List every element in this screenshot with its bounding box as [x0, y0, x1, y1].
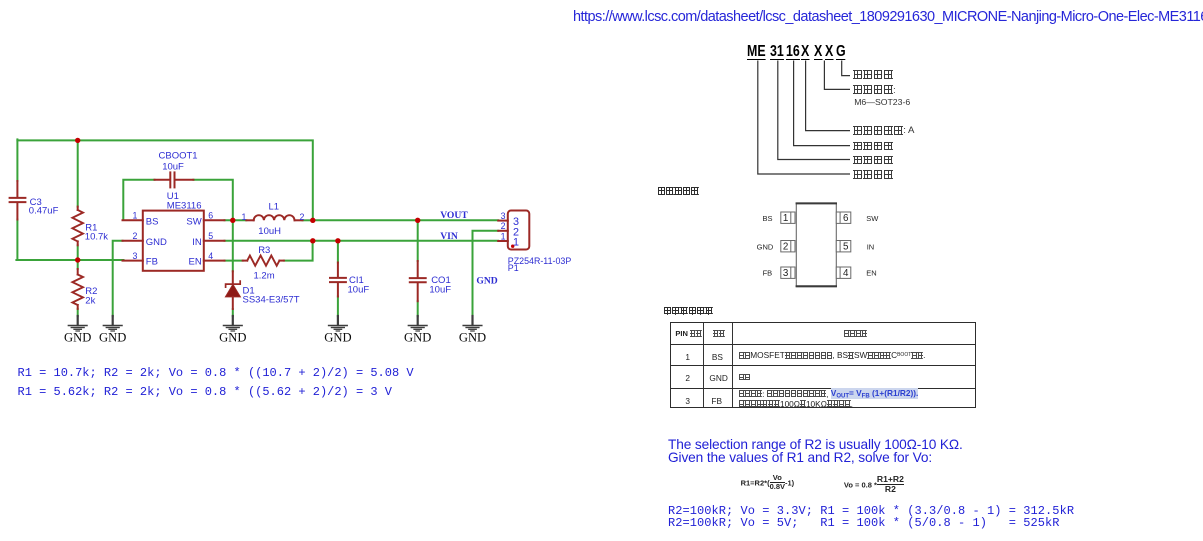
- wire CO1 bottom to ground: [417, 301, 419, 316]
- package SOT23-6 body: [796, 203, 836, 287]
- wire R2 bottom to ground: [77, 309, 79, 316]
- svg-text:FB: FB: [146, 257, 158, 268]
- diode D1 SS34: [232, 271, 234, 284]
- part number product category line: [778, 61, 850, 160]
- P1 pin 1 stub: [498, 240, 508, 242]
- svg-text:10uH: 10uH: [258, 226, 281, 237]
- wire R1 top: [77, 139, 79, 206]
- package pin 2 box left: [781, 241, 795, 252]
- svg-text:3: 3: [783, 268, 789, 279]
- svg-text:IN: IN: [867, 242, 875, 251]
- wire EN to R3: [225, 260, 243, 262]
- datasheet URL: [573, 9, 1203, 25]
- svg-text:10uF: 10uF: [348, 284, 370, 295]
- svg-text:GND: GND: [324, 331, 351, 345]
- pin function table: [670, 322, 976, 408]
- U1 pin 2 GND stub: [123, 240, 143, 242]
- svg-text:10uF: 10uF: [162, 161, 184, 172]
- section title: pin function description: [663, 306, 713, 315]
- ground symbol at x=417.7: [408, 316, 427, 331]
- svg-text:GND: GND: [64, 331, 91, 345]
- monospace calc lines right: [668, 506, 1074, 530]
- svg-text:BS: BS: [146, 216, 159, 227]
- connector P1 body: [508, 211, 530, 250]
- U1 pin 1 BS stub: [123, 219, 143, 221]
- part number version line: [806, 61, 850, 131]
- wire top rail VOUT feedback: [17, 140, 312, 219]
- svg-text:EN: EN: [866, 269, 876, 278]
- part number product variety line: [794, 61, 850, 146]
- svg-text:R3: R3: [258, 245, 270, 256]
- wire D1 anode to ground: [232, 309, 234, 316]
- package pin 5 box right: [836, 241, 851, 252]
- svg-text:6: 6: [208, 211, 213, 221]
- svg-text:BS: BS: [762, 214, 772, 223]
- svg-text:4: 4: [208, 251, 213, 261]
- svg-text:L1: L1: [269, 201, 280, 212]
- wire U1 GND pin to ground: [113, 241, 123, 316]
- svg-text:1: 1: [242, 212, 247, 222]
- svg-text:2: 2: [783, 242, 788, 253]
- inductor L1: [246, 219, 253, 221]
- svg-text:GND: GND: [404, 331, 431, 345]
- ground symbol at x=232.8: [224, 316, 243, 331]
- wire CI1 top: [337, 241, 339, 263]
- svg-text:5: 5: [843, 242, 849, 253]
- package pin 3 box left: [781, 267, 795, 278]
- formula Vo=0.8*(R1+R2)/R2: [844, 476, 904, 495]
- resistor R2: [77, 269, 79, 275]
- svg-text:10uF: 10uF: [429, 284, 451, 295]
- resistor R3: [243, 260, 248, 262]
- ground symbol at x=77.7: [68, 316, 87, 331]
- package pin 6 box right: [836, 212, 851, 223]
- wire CBOOT1 to SW node: [193, 180, 232, 219]
- U1 pin 4 EN stub: [204, 260, 225, 262]
- wire P1 pin2 to ground: [473, 231, 499, 317]
- P1 polarity dot: [511, 245, 514, 248]
- wire BS to CBOOT1: [123, 180, 154, 220]
- ground symbol at x=472.5: [463, 316, 482, 331]
- junction node VIN / R3: [310, 238, 315, 243]
- monospace calc lines left: [18, 364, 414, 402]
- svg-text:2: 2: [501, 221, 506, 231]
- svg-text:GND: GND: [476, 276, 497, 287]
- svg-text:2k: 2k: [85, 296, 95, 307]
- svg-text:4: 4: [843, 268, 849, 279]
- tree labels (Chinese): [853, 70, 893, 79]
- wire VOUT rail to P1 pin3: [313, 219, 498, 221]
- junction node VOUT rail / R1 top: [75, 138, 80, 143]
- svg-text:CBOOT1: CBOOT1: [159, 151, 198, 162]
- svg-text:GND: GND: [146, 237, 167, 248]
- package pin 4 box right: [836, 267, 851, 278]
- svg-text:10.7k: 10.7k: [85, 232, 108, 243]
- ground symbol at x=337.9: [329, 316, 348, 331]
- svg-text:ME3116: ME3116: [167, 200, 202, 211]
- capacitor CO1: [417, 261, 419, 277]
- svg-text:6: 6: [843, 213, 849, 224]
- wire L1 to VOUT node: [303, 219, 313, 221]
- blue explanatory text: [668, 438, 963, 465]
- U1 pin 5 IN stub: [204, 240, 225, 242]
- svg-text:EN: EN: [188, 257, 201, 268]
- svg-text:IN: IN: [192, 237, 202, 248]
- formula R1=R2*(Vo/0.8V-1): [741, 475, 795, 492]
- svg-text:GND: GND: [99, 331, 126, 345]
- part number company id line: [758, 61, 850, 175]
- wire R3 to VIN rail: [284, 242, 313, 261]
- svg-text:VOUT: VOUT: [440, 210, 468, 221]
- U1 pin 3 FB stub: [123, 260, 143, 262]
- wire SW node to D1: [232, 221, 234, 271]
- package pin 1 box left: [781, 212, 795, 223]
- svg-text:SS34-E3/57T: SS34-E3/57T: [243, 295, 300, 306]
- U1 pin 6 SW stub: [204, 219, 225, 221]
- svg-text:1: 1: [501, 231, 506, 241]
- junction node FB divider: [75, 257, 80, 262]
- part number header ME3116XXXG: [0, 45, 1, 71]
- svg-text:GND: GND: [459, 331, 486, 345]
- svg-text:0.47uF: 0.47uF: [29, 206, 59, 217]
- capacitor CI1: [337, 263, 339, 277]
- capacitor C3: [16, 181, 18, 197]
- P1 pin 2 stub: [498, 230, 508, 232]
- capacitor CBOOT1: [155, 179, 170, 181]
- part number eco mark line: [842, 61, 850, 76]
- part number package form line: [824, 61, 850, 90]
- svg-text:SW: SW: [186, 216, 201, 227]
- op-amp U1 ME3116 body: [143, 211, 204, 271]
- svg-text:GND: GND: [757, 242, 774, 251]
- svg-text:1.2m: 1.2m: [254, 270, 275, 281]
- ground symbol at x=112.7: [103, 316, 122, 331]
- svg-text:3: 3: [501, 211, 506, 221]
- wire R2 top: [77, 260, 79, 269]
- svg-text:1: 1: [783, 213, 788, 224]
- svg-text:1: 1: [133, 211, 138, 221]
- wire left branch through C3: [16, 139, 18, 181]
- svg-text:5: 5: [208, 231, 213, 241]
- svg-text:1: 1: [513, 237, 519, 249]
- wire VIN rail IN pin to P1 pin1: [225, 240, 499, 242]
- wire FB rail: [16, 259, 123, 261]
- svg-text:FB: FB: [763, 269, 773, 278]
- junction node VOUT: [310, 218, 315, 223]
- section title: product pin map: [657, 187, 699, 196]
- wire CI1 bottom to ground: [337, 297, 339, 317]
- junction node VIN / CI1: [335, 238, 340, 243]
- junction node SW: [230, 218, 235, 223]
- resistor R1: [77, 207, 79, 210]
- svg-text:2: 2: [133, 231, 138, 241]
- P1 pin 3 stub: [498, 220, 508, 222]
- svg-text:2: 2: [300, 212, 305, 222]
- svg-text:VIN: VIN: [440, 231, 458, 242]
- junction node VOUT / CO1: [415, 218, 420, 223]
- svg-text:3: 3: [133, 251, 138, 261]
- wire SW pin to L1: [225, 219, 247, 221]
- svg-text:GND: GND: [219, 331, 246, 345]
- svg-text:SW: SW: [866, 214, 879, 223]
- wire CO1 top: [417, 220, 419, 261]
- svg-text:P1: P1: [508, 263, 519, 273]
- wire R1 bottom: [77, 245, 79, 260]
